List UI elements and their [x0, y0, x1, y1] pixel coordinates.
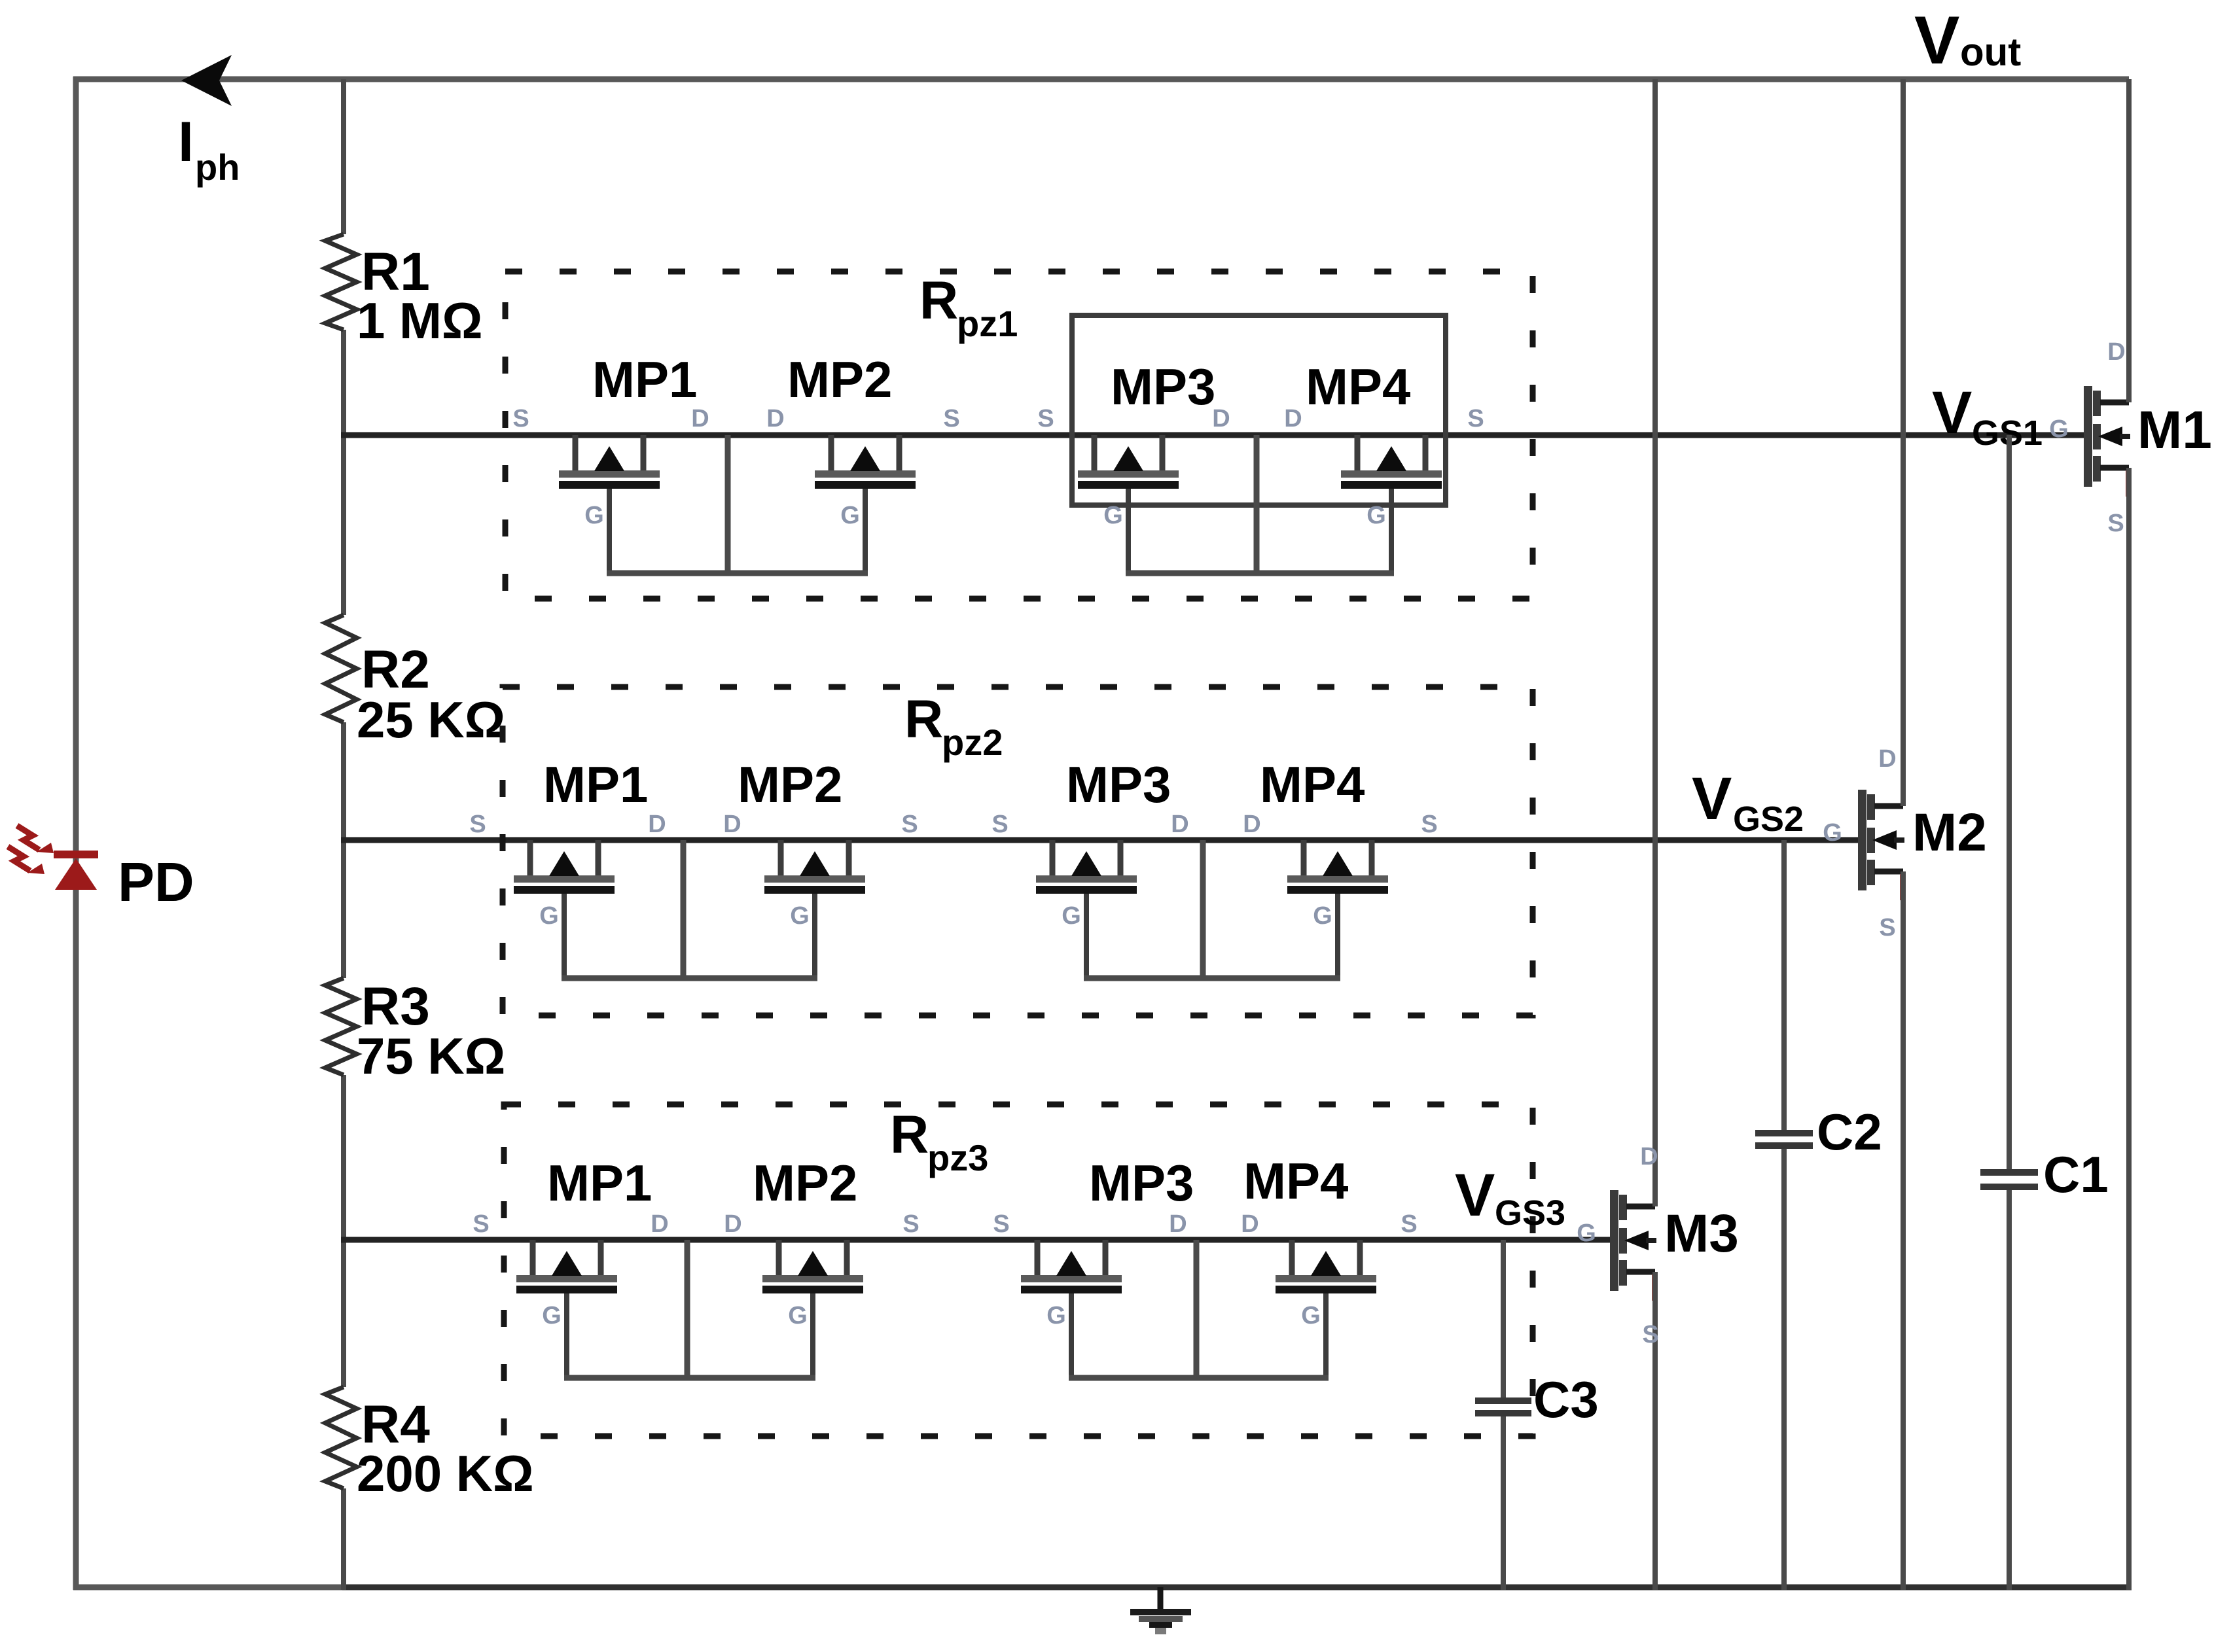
- wire source rail of M3: [1652, 1272, 1658, 1590]
- svg-text:MP3: MP3: [1089, 1154, 1194, 1212]
- svg-text:G: G: [1366, 502, 1386, 529]
- svg-text:G: G: [1046, 1302, 1066, 1329]
- wire drain-gate tie MP3/MP4 of Rpz2: [1200, 840, 1206, 978]
- pin labels G of Rpz2 row: [539, 902, 1332, 930]
- svg-text:S: S: [1879, 914, 1895, 941]
- svg-text:MP4: MP4: [1260, 756, 1365, 813]
- wire gate tie U MP1-MP2 of Rpz2: [562, 975, 817, 981]
- resistor R2 (25 KΩ): [325, 615, 505, 748]
- wire left border: [73, 77, 79, 1590]
- svg-text:C3: C3: [1533, 1371, 1599, 1428]
- label net VGS3: [1455, 1162, 1565, 1233]
- svg-text:S: S: [1642, 1321, 1658, 1348]
- label MP4 of Rpz3: [1243, 1152, 1348, 1210]
- svg-text:R: R: [920, 271, 958, 330]
- svg-text:G: G: [1823, 819, 1842, 847]
- svg-text:S: S: [901, 811, 918, 838]
- svg-text:pz1: pz1: [957, 303, 1018, 344]
- label PD: [118, 851, 194, 913]
- svg-text:25 KΩ: 25 KΩ: [357, 691, 505, 748]
- svg-text:S: S: [1421, 811, 1437, 838]
- svg-text:pz2: pz2: [942, 722, 1003, 763]
- solid sub-box around MP3/MP4 of Rpz1: [1072, 315, 1446, 505]
- wire bottom ground rail (right segment): [342, 1585, 2132, 1590]
- svg-text:G: G: [584, 502, 604, 529]
- wire row net VGS2 (R2/R3 node to M2 gate): [341, 837, 1859, 843]
- svg-text:M3: M3: [1664, 1204, 1739, 1263]
- svg-text:out: out: [1960, 30, 2021, 74]
- svg-text:D: D: [1640, 1143, 1658, 1170]
- wire drain rail of M3: [1652, 79, 1658, 1206]
- svg-text:V: V: [1455, 1162, 1495, 1229]
- wire gate tie U MP3-MP4 of Rpz3: [1069, 1375, 1329, 1381]
- label Iph: [178, 111, 240, 188]
- capacitor C3: [1475, 1240, 1599, 1590]
- transistor M3 (MOSFET): [1610, 1190, 1658, 1301]
- svg-text:S: S: [1467, 405, 1484, 432]
- svg-text:C2: C2: [1817, 1103, 1882, 1161]
- current arrow Iph on top wire: [181, 55, 232, 106]
- capacitor C1: [1980, 435, 2109, 1590]
- transistor Rpz2 MP2 (PMOS): [764, 840, 865, 978]
- transistor Rpz2 MP4 (PMOS): [1287, 840, 1388, 978]
- svg-text:1 MΩ: 1 MΩ: [357, 292, 483, 349]
- svg-text:200 KΩ: 200 KΩ: [357, 1445, 534, 1502]
- svg-text:S: S: [473, 1210, 489, 1238]
- svg-text:MP3: MP3: [1111, 358, 1215, 415]
- svg-text:MP1: MP1: [543, 756, 648, 813]
- pin labels D/G/S of M2: [1823, 745, 1897, 941]
- pin labels D/G/S of M3: [1577, 1143, 1658, 1348]
- svg-text:S: S: [1037, 405, 1054, 432]
- svg-text:S: S: [991, 811, 1008, 838]
- label M3: [1664, 1204, 1739, 1263]
- label MP3 of Rpz3: [1089, 1154, 1194, 1212]
- transistor Rpz3 MP2 (PMOS): [762, 1240, 863, 1378]
- svg-text:R: R: [890, 1105, 929, 1165]
- label M1: [2137, 400, 2212, 460]
- svg-text:S: S: [469, 811, 486, 838]
- svg-text:D: D: [723, 811, 741, 838]
- svg-text:MP4: MP4: [1243, 1152, 1348, 1210]
- resistor R1 (1 MΩ): [325, 234, 483, 349]
- capacitor C2: [1755, 840, 1882, 1590]
- wire top Vout rail: [73, 77, 2129, 82]
- pin labels S/D of Rpz3 row: [473, 1210, 1417, 1238]
- svg-text:D: D: [1241, 1210, 1259, 1238]
- svg-text:G: G: [840, 502, 860, 529]
- svg-text:pz3: pz3: [927, 1137, 988, 1178]
- svg-text:D: D: [648, 811, 666, 838]
- label MP2 of Rpz1: [787, 351, 892, 408]
- svg-text:G: G: [1577, 1220, 1596, 1247]
- label net VGS2: [1692, 765, 1804, 839]
- svg-text:V: V: [1932, 379, 1972, 446]
- svg-text:G: G: [788, 1302, 808, 1329]
- svg-text:V: V: [1914, 3, 1959, 79]
- svg-text:MP2: MP2: [787, 351, 892, 408]
- label Rpz1: [920, 271, 1018, 344]
- wire bottom ground rail (left segment): [73, 1585, 345, 1590]
- label MP1 of Rpz1: [592, 351, 697, 408]
- wire drain rail of M1: [2126, 79, 2132, 402]
- wire drain-gate tie MP3/MP4 of Rpz3: [1194, 1240, 1200, 1378]
- pin labels S/D of Rpz2 row: [469, 811, 1437, 838]
- svg-text:R: R: [904, 690, 943, 749]
- transistor M1 (MOSFET): [2084, 386, 2132, 497]
- svg-text:S: S: [993, 1210, 1009, 1238]
- svg-text:D: D: [1878, 745, 1896, 773]
- svg-text:G: G: [2049, 415, 2069, 443]
- svg-text:MP1: MP1: [547, 1154, 652, 1212]
- transistor M2 (MOSFET): [1858, 790, 1906, 900]
- label MP2 of Rpz2: [738, 756, 842, 813]
- svg-text:D: D: [1169, 1210, 1187, 1238]
- pin labels D/G/S of M1: [2049, 338, 2126, 537]
- svg-text:MP2: MP2: [753, 1154, 857, 1212]
- svg-text:D: D: [1284, 405, 1302, 432]
- photodiode PD: [8, 826, 98, 890]
- svg-text:MP2: MP2: [738, 756, 842, 813]
- svg-text:D: D: [766, 405, 784, 432]
- label net VGS1: [1932, 379, 2043, 453]
- svg-text:D: D: [1243, 811, 1260, 838]
- svg-text:D: D: [1171, 811, 1188, 838]
- wire gate tie U MP3-MP4 of Rpz2: [1084, 975, 1340, 981]
- wire drain-gate tie MP3/MP4 of Rpz1: [1254, 435, 1260, 573]
- svg-text:ph: ph: [195, 147, 240, 188]
- svg-text:D: D: [651, 1210, 668, 1238]
- wire row net VGS1 (R1/R2 node to M1 gate): [341, 432, 2085, 438]
- wire drain-gate tie MP1/MP2 of Rpz3: [685, 1240, 690, 1378]
- svg-text:G: G: [1301, 1302, 1321, 1329]
- svg-text:MP1: MP1: [592, 351, 697, 408]
- pseudo-resistor block Rpz2 (dashed box): [503, 687, 1533, 1015]
- wire resistor-chain rail R1-R4: [341, 79, 346, 1590]
- svg-text:S: S: [943, 405, 959, 432]
- resistor R3 (75 KΩ): [325, 977, 505, 1085]
- label MP3 of Rpz1: [1111, 358, 1215, 415]
- label M2: [1912, 803, 1987, 862]
- transistor Rpz2 MP3 (PMOS): [1036, 840, 1137, 978]
- wire drain-gate tie MP1/MP2 of Rpz2: [681, 840, 687, 978]
- pseudo-resistor block Rpz3 (dashed box): [504, 1104, 1533, 1436]
- svg-text:D: D: [2107, 338, 2125, 366]
- svg-text:S: S: [2107, 510, 2124, 537]
- svg-text:D: D: [691, 405, 709, 432]
- wire drain rail of M2: [1901, 79, 1906, 806]
- wire gate tie U MP1-MP2 of Rpz3: [564, 1375, 815, 1381]
- svg-text:G: G: [1313, 902, 1332, 930]
- pin labels G of Rpz1 row: [584, 502, 1386, 529]
- pin labels S/D of Rpz1 row: [512, 405, 1484, 432]
- svg-text:75 KΩ: 75 KΩ: [357, 1027, 505, 1085]
- svg-text:S: S: [902, 1210, 919, 1238]
- label MP2 of Rpz3: [753, 1154, 857, 1212]
- svg-text:D: D: [724, 1210, 741, 1238]
- transistor Rpz3 MP4 (PMOS): [1276, 1240, 1376, 1378]
- svg-text:M2: M2: [1912, 803, 1987, 862]
- wire row net VGS3 (R3/R4 node to M3 gate): [341, 1237, 1611, 1243]
- svg-text:MP3: MP3: [1066, 756, 1171, 813]
- svg-text:G: G: [1062, 902, 1081, 930]
- label Vout: [1914, 3, 2021, 79]
- svg-text:GS2: GS2: [1733, 800, 1804, 839]
- svg-text:GS3: GS3: [1495, 1193, 1565, 1233]
- transistor Rpz3 MP3 (PMOS): [1021, 1240, 1122, 1378]
- svg-text:G: G: [1103, 502, 1123, 529]
- svg-text:MP4: MP4: [1306, 358, 1410, 415]
- transistor Rpz1 MP3 (PMOS): [1078, 435, 1179, 573]
- svg-text:D: D: [1212, 405, 1230, 432]
- svg-text:I: I: [178, 111, 194, 173]
- svg-text:S: S: [1401, 1210, 1417, 1238]
- label MP4 of Rpz1: [1306, 358, 1410, 415]
- label MP3 of Rpz2: [1066, 756, 1171, 813]
- wire gate tie U MP1-MP2 of Rpz1: [607, 571, 868, 576]
- pin labels G of Rpz3 row: [542, 1302, 1321, 1329]
- transistor Rpz1 MP2 (PMOS): [815, 435, 916, 573]
- svg-text:M1: M1: [2137, 400, 2212, 460]
- svg-text:C1: C1: [2043, 1146, 2109, 1203]
- svg-text:V: V: [1692, 765, 1732, 832]
- wire gate tie U MP3-MP4 of Rpz1: [1126, 571, 1394, 576]
- pseudo-resistor block Rpz1 (dashed box): [505, 272, 1533, 599]
- svg-text:G: G: [539, 902, 559, 930]
- svg-text:G: G: [542, 1302, 562, 1329]
- transistor Rpz1 MP1 (PMOS): [559, 435, 660, 573]
- label Rpz3: [890, 1105, 988, 1178]
- svg-text:S: S: [512, 405, 529, 432]
- transistor Rpz3 MP1 (PMOS): [516, 1240, 617, 1378]
- wire source rail of M1: [2126, 468, 2132, 1590]
- label MP4 of Rpz2: [1260, 756, 1365, 813]
- resistor R4 (200 KΩ): [325, 1387, 534, 1502]
- svg-text:PD: PD: [118, 851, 194, 913]
- label MP1 of Rpz3: [547, 1154, 652, 1212]
- svg-text:G: G: [790, 902, 810, 930]
- label Rpz2: [904, 690, 1003, 763]
- label MP1 of Rpz2: [543, 756, 648, 813]
- wire source rail of M2: [1901, 871, 1906, 1590]
- transistor Rpz2 MP1 (PMOS): [514, 840, 615, 978]
- transistor Rpz1 MP4 (PMOS): [1341, 435, 1442, 573]
- ground symbol: [1130, 1587, 1191, 1634]
- wire drain-gate tie MP1/MP2 of Rpz1: [725, 435, 731, 573]
